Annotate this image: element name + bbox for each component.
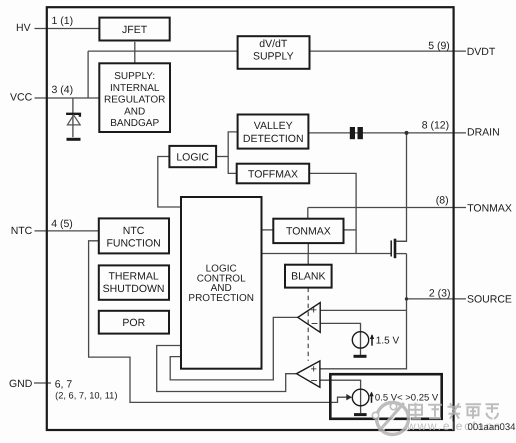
svg-text:INTERNAL: INTERNAL (110, 83, 160, 94)
svg-text:3 (4): 3 (4) (52, 84, 74, 96)
svg-text:6, 7: 6, 7 (55, 379, 73, 391)
svg-text:dV/dT: dV/dT (259, 38, 288, 50)
svg-text:NTC: NTC (11, 225, 33, 237)
svg-text:PROTECTION: PROTECTION (188, 293, 254, 304)
svg-text:2 (3): 2 (3) (429, 288, 451, 300)
svg-text:4 (5): 4 (5) (51, 218, 73, 230)
svg-text:BANDGAP: BANDGAP (110, 118, 159, 129)
svg-text:−: − (311, 374, 318, 388)
svg-text:DRAIN: DRAIN (467, 127, 500, 139)
svg-text:−: − (311, 317, 318, 331)
svg-text:8 (12): 8 (12) (422, 119, 449, 131)
svg-text:TONMAX: TONMAX (467, 202, 512, 214)
svg-text:(8): (8) (436, 194, 449, 206)
svg-text:0.5 V< >0.25 V: 0.5 V< >0.25 V (375, 392, 439, 403)
svg-text:TONMAX: TONMAX (286, 225, 331, 237)
svg-text:GND: GND (9, 378, 33, 390)
svg-text:BLANK: BLANK (291, 271, 325, 283)
svg-text:+: + (311, 305, 317, 317)
svg-text:1 (1): 1 (1) (52, 15, 74, 27)
svg-text:5 (9): 5 (9) (428, 40, 450, 52)
svg-text:1.5 V: 1.5 V (376, 336, 400, 347)
svg-text:VCC: VCC (10, 92, 33, 104)
svg-text:LOGIC: LOGIC (176, 151, 209, 163)
svg-text:JFET: JFET (122, 24, 148, 36)
svg-text:TOFFMAX: TOFFMAX (248, 168, 298, 180)
svg-text:AND: AND (124, 106, 145, 117)
svg-text:SUPPLY:: SUPPLY: (114, 71, 155, 82)
svg-text:HV: HV (16, 22, 31, 34)
svg-text:SHUTDOWN: SHUTDOWN (103, 283, 165, 295)
svg-text:DVDT: DVDT (467, 46, 496, 58)
svg-text:REGULATOR: REGULATOR (104, 95, 165, 106)
svg-text:DETECTION: DETECTION (243, 133, 304, 145)
svg-text:POR: POR (122, 317, 145, 329)
svg-text:SUPPLY: SUPPLY (253, 50, 294, 62)
svg-text:NTC: NTC (123, 225, 145, 237)
svg-text:FUNCTION: FUNCTION (106, 237, 160, 249)
svg-text:THERMAL: THERMAL (109, 271, 159, 283)
svg-text:(2, 6, 7, 10, 11): (2, 6, 7, 10, 11) (55, 390, 117, 400)
svg-text:001aan034: 001aan034 (468, 422, 516, 433)
svg-text:VALLEY: VALLEY (254, 120, 293, 132)
svg-text:SOURCE: SOURCE (467, 294, 512, 306)
